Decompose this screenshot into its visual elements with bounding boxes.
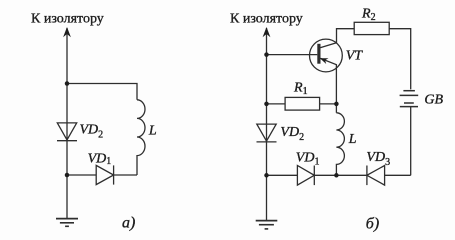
svg-text:К изолятору: К изолятору [31,12,104,27]
svg-text:VD2: VD2 [80,123,104,141]
svg-text:VD1: VD1 [88,152,112,168]
svg-text:б): б) [366,216,379,233]
svg-text:GB: GB [424,92,443,107]
svg-text:а): а) [122,215,135,232]
svg-text:R1: R1 [293,80,308,97]
svg-text:VD1: VD1 [296,151,320,168]
svg-text:L: L [348,132,357,147]
svg-text:VD2: VD2 [280,125,304,143]
svg-text:К изолятору: К изолятору [230,12,303,27]
svg-text:L: L [148,124,157,139]
svg-text:R2: R2 [361,6,376,23]
svg-text:VD3: VD3 [366,150,390,168]
svg-text:VT: VT [346,48,364,63]
